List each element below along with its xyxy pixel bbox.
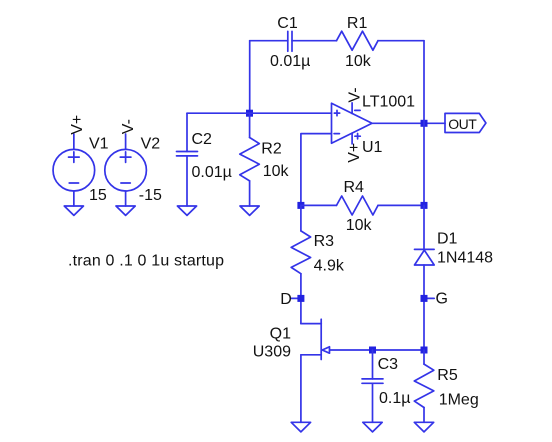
svg-text:Q1: Q1 [270,325,291,342]
node junction R4 left [297,202,304,209]
wire main horizontal to op-amp plus input [187,112,332,114]
wire R1 to right rail [378,40,424,42]
transistor Q1 JFET [301,319,330,359]
svg-text:V-: V- [120,119,137,134]
net label G with tick [421,295,435,302]
resistor R3 [291,205,310,323]
svg-text:V-: V- [346,87,363,102]
svg-text:V2: V2 [141,136,161,153]
wire op-amp output [372,122,445,124]
resistor R1 [337,31,379,50]
ground below R2 [240,206,259,215]
capacitor C1 [288,31,292,51]
svg-text:V+: V+ [69,115,86,135]
svg-text:R3: R3 [314,233,335,250]
svg-text:U309: U309 [253,344,291,361]
resistor R5 [414,350,434,422]
wire gate net [330,349,425,351]
svg-text:10k: 10k [345,53,372,70]
svg-text:1N4148: 1N4148 [437,250,493,267]
svg-text:OUT: OUT [448,116,477,132]
node junction output [421,120,428,127]
resistor R4 [337,196,379,215]
op-amp U1 [332,103,373,144]
svg-text:R1: R1 [347,15,368,32]
diode D1 [415,205,435,350]
svg-text:R4: R4 [344,179,365,196]
svg-text:.tran 0 .1 0 1u startup: .tran 0 .1 0 1u startup [68,252,224,269]
svg-text:4.9k: 4.9k [314,258,345,275]
ground below C2 [177,206,196,215]
capacitor C2 [177,113,198,206]
wire R4 left lead [301,204,337,206]
ground below C3 [363,422,382,432]
voltage source V1 [53,134,95,206]
svg-text:G: G [436,291,448,308]
svg-text:LT1001: LT1001 [362,94,415,111]
svg-text:10k: 10k [263,163,290,180]
capacitor C3 [362,350,383,422]
node junction C3 top [369,347,376,354]
svg-text:C1: C1 [277,15,298,32]
wire inverting input [301,134,332,206]
voltage source V2 [105,134,147,206]
node junction left [246,110,253,117]
ground below V2 [116,206,135,215]
svg-text:-15: -15 [139,187,162,204]
net label D with tick [291,295,304,302]
ground below R5 [414,422,433,432]
svg-text:15: 15 [89,187,107,204]
wire Q1 source to ground [300,355,302,423]
svg-text:R5: R5 [437,367,458,384]
svg-text:0.1µ: 0.1µ [379,390,410,407]
wire R4 right lead [378,204,424,206]
wire left rail down [249,41,251,114]
svg-text:1Meg: 1Meg [439,391,479,408]
svg-text:D: D [280,291,292,308]
svg-text:D1: D1 [437,231,458,248]
ground below V1 [64,206,83,215]
svg-text:V+: V+ [346,143,363,163]
output flag OUT [445,113,486,132]
wire C1 to R1 [292,40,337,42]
svg-text:0.01µ: 0.01µ [192,164,232,181]
resistor R2 [240,113,259,206]
svg-text:U1: U1 [362,139,383,156]
svg-text:10k: 10k [346,217,373,234]
node junction R4 right [421,202,428,209]
svg-text:C3: C3 [378,356,399,373]
wire top rail left segment [250,40,288,42]
wire right rail upper [423,41,425,206]
svg-text:0.01µ: 0.01µ [270,53,310,70]
ground below Q1 source [291,422,310,432]
svg-text:R2: R2 [261,141,282,158]
svg-text:V1: V1 [89,136,109,153]
svg-text:C2: C2 [192,131,213,148]
node junction R5 top [421,347,428,354]
